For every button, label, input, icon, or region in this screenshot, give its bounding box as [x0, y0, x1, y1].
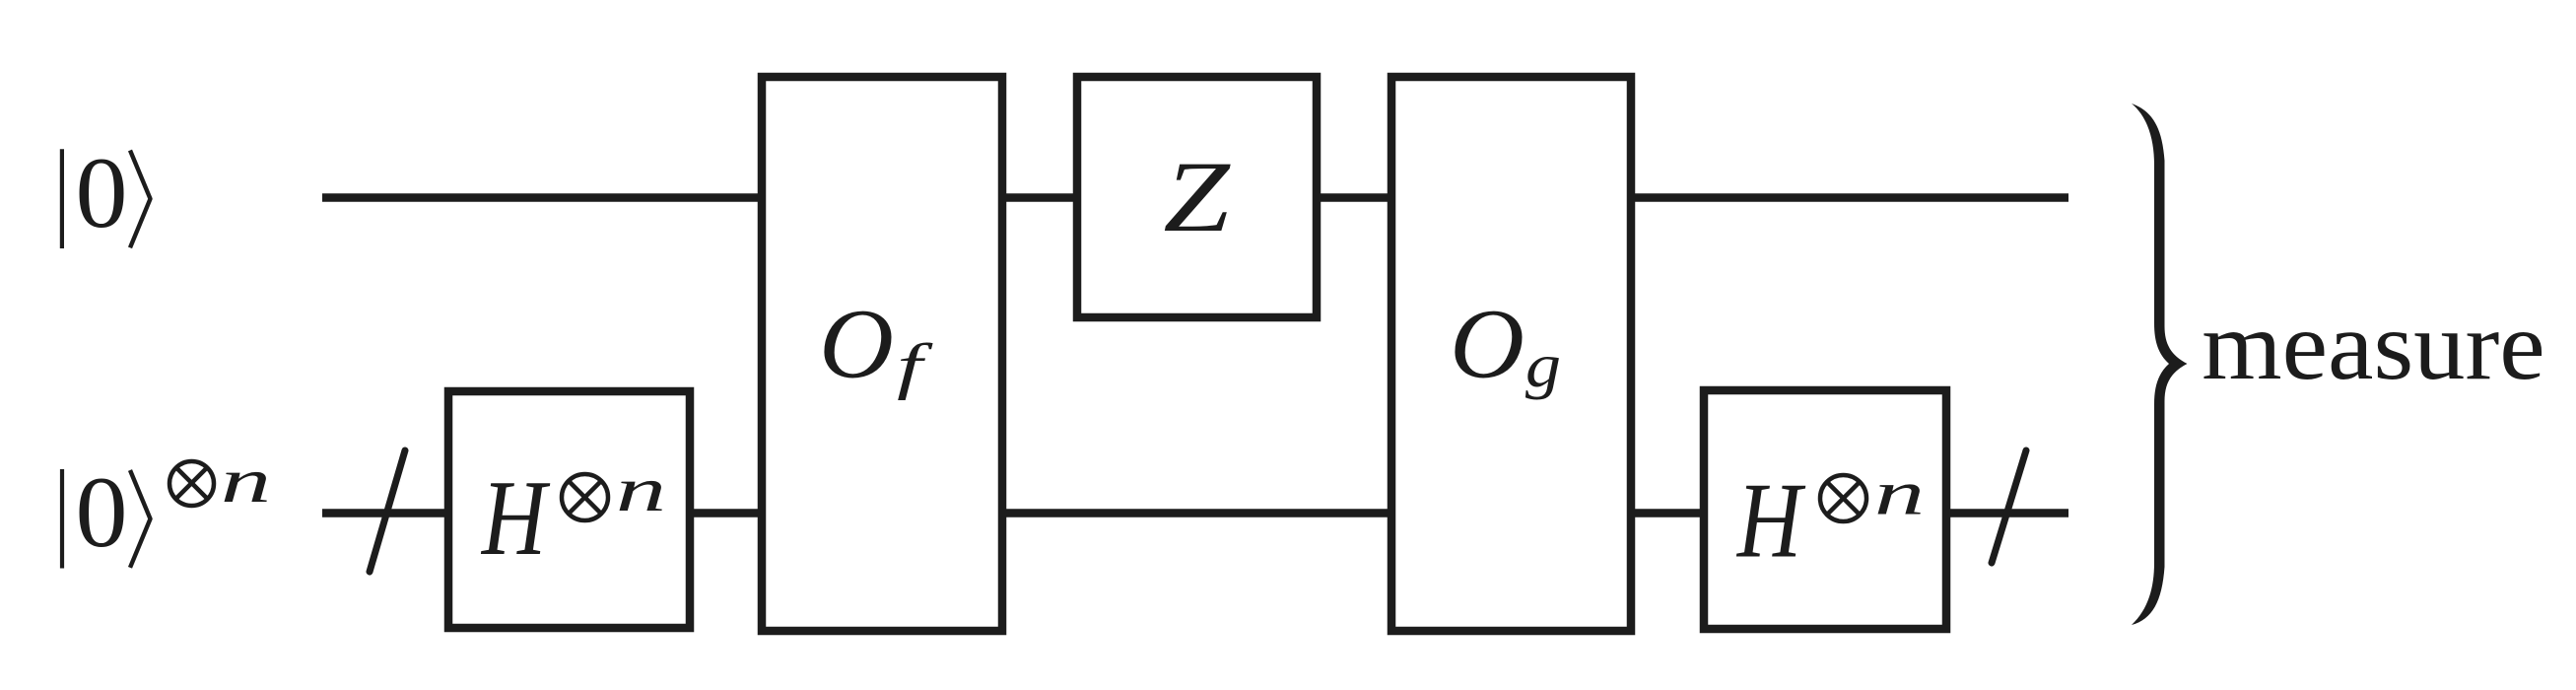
svg-text:n: n — [616, 455, 666, 524]
bundle slash left — [370, 450, 405, 572]
ket |0> bottom: bar — [60, 469, 64, 569]
svg-text:measure: measure — [2202, 292, 2544, 400]
svg-text:0: 0 — [75, 136, 127, 248]
svg-text:0: 0 — [75, 455, 127, 568]
wire bottom register — [322, 509, 2068, 517]
svg-text:O: O — [819, 289, 894, 399]
svg-text:n: n — [221, 447, 271, 516]
gate H1 label: tensor circle — [562, 474, 608, 520]
measure brace — [2132, 103, 2188, 625]
svg-text:n: n — [1874, 458, 1925, 527]
svg-text:O: O — [1450, 289, 1525, 399]
gate box Of — [762, 77, 1002, 631]
svg-text:H: H — [480, 458, 550, 578]
svg-text:Z: Z — [1163, 141, 1231, 253]
bundle slash right — [1992, 450, 2026, 563]
gate box H1 — [448, 391, 690, 628]
gate H2 label: tensor circle — [1820, 475, 1866, 521]
ket label superscript tensor circle — [169, 461, 214, 506]
ket |0> top: angle — [130, 151, 151, 248]
gate box Z — [1077, 77, 1317, 317]
ket |0> bottom: angle — [130, 470, 151, 568]
gate box H2 — [1704, 390, 1946, 629]
svg-text:H: H — [1735, 461, 1805, 581]
gate box Og — [1391, 77, 1631, 631]
wire top qubit — [322, 193, 2068, 202]
ket |0> top: bar — [60, 149, 64, 248]
svg-text:g: g — [1525, 330, 1561, 400]
